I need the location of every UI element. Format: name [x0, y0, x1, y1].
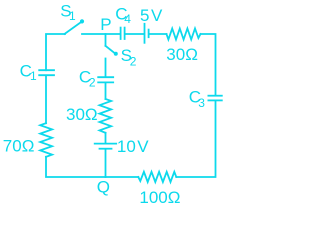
svg-text:1: 1 — [69, 9, 76, 23]
svg-text:2: 2 — [89, 75, 96, 89]
svg-text:70Ω: 70Ω — [3, 136, 35, 155]
svg-text:2: 2 — [130, 54, 137, 68]
svg-text:10: 10 — [117, 137, 136, 156]
svg-text:5: 5 — [140, 6, 149, 25]
svg-text:30Ω: 30Ω — [66, 105, 98, 124]
svg-text:30Ω: 30Ω — [166, 45, 198, 64]
svg-text:4: 4 — [124, 12, 131, 26]
svg-text:V: V — [137, 137, 149, 156]
svg-text:3: 3 — [198, 96, 205, 110]
svg-text:1: 1 — [30, 69, 37, 83]
svg-text:100Ω: 100Ω — [139, 188, 180, 206]
svg-text:V: V — [151, 6, 163, 25]
svg-text:P: P — [100, 15, 111, 34]
svg-text:Q: Q — [97, 178, 110, 197]
